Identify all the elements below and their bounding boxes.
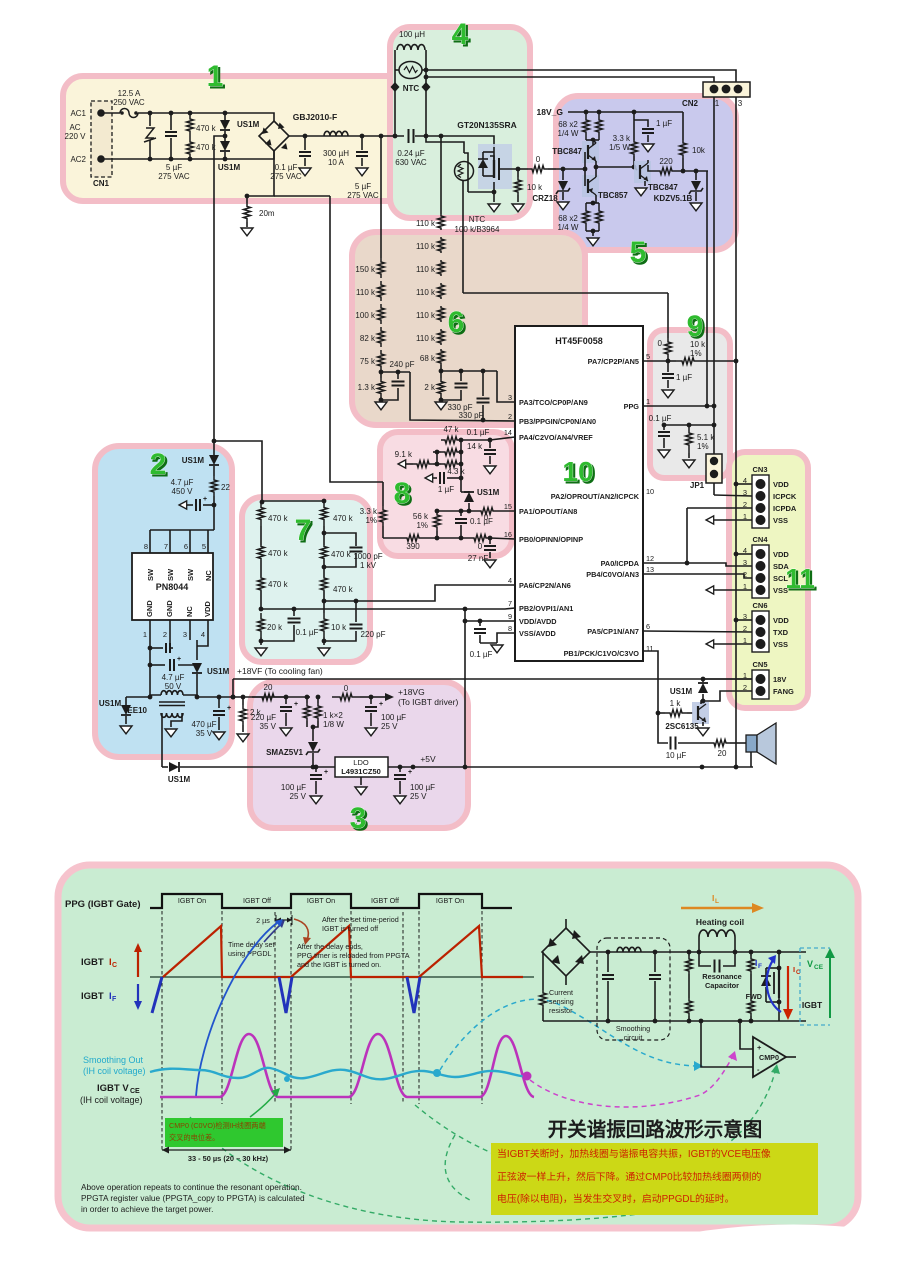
svg-text:TBC847: TBC847 [552,147,582,156]
zener CRZ18 [562,169,564,180]
svg-text:CN1: CN1 [93,179,110,188]
svg-text:VDD: VDD [773,480,789,489]
svg-text:V: V [807,959,813,969]
PN8044 top pin 5 NC [207,530,209,553]
PN8044 bottom pin 2 GND [169,620,171,640]
wire PA0 to CN4 SDA [643,563,752,566]
svg-text:US1M: US1M [168,775,191,784]
svg-text:PPGTA register value (PPGTA_co: PPGTA register value (PPGTA_copy to PPGT… [81,1193,305,1203]
svg-text:+: + [757,1043,762,1052]
capacitor 100uF 25V a [370,697,372,704]
divider resistor right top [749,950,754,955]
connector CN2 [703,82,750,97]
green dashed loop 3 [445,1135,470,1200]
svg-text:(To IGBT driver): (To IGBT driver) [398,697,458,707]
svg-text:13: 13 [646,565,654,574]
diode US1M bottom [162,766,168,768]
svg-text:9.1 k: 9.1 k [395,450,413,459]
svg-text:100 k: 100 k [355,311,376,320]
svg-text:CN5: CN5 [752,660,767,669]
jumper JP1 [706,454,722,483]
wire speaker return [750,752,752,767]
wire AC2 bottom rail [101,151,274,159]
svg-text:IGBT: IGBT [81,991,104,1002]
svg-text:+: + [203,496,207,503]
diode US1M clamp [464,492,474,502]
svg-text:PB2/OVPI1/AN1: PB2/OVPI1/AN1 [519,604,573,613]
svg-text:110 k: 110 k [416,265,436,274]
svg-text:1: 1 [646,397,650,406]
svg-text:20 k: 20 k [267,623,283,632]
svg-text:0.24 µF: 0.24 µF [397,149,424,158]
wire to region 7 divider top [214,441,262,502]
svg-text:LDO: LDO [353,758,369,767]
wire ICPDA link [687,507,752,509]
svg-text:6: 6 [646,622,650,631]
svg-text:Heating coil: Heating coil [696,917,744,927]
svg-text:330 pF: 330 pF [459,411,484,420]
svg-text:100 µF: 100 µF [410,783,435,792]
svg-text:+: + [379,701,383,708]
zener SMAZ5V1 [312,727,314,741]
svg-text:4: 4 [743,476,747,485]
svg-text:100 µF: 100 µF [281,783,306,792]
svg-text:56 k: 56 k [413,512,429,521]
capacitor 1uF driver [634,120,648,127]
region 7 mains divider block [242,497,370,662]
svg-text:+: + [294,701,298,708]
capacitor 330pF second [482,371,484,396]
IC U1 HT45F0058 [515,326,643,661]
svg-text:1: 1 [715,99,720,108]
wire PB1 to 1k [643,651,658,713]
resistor 1.3k [378,378,385,397]
capacitor 27nF [489,538,491,544]
smoothing cap 2 [654,952,656,972]
svg-text:16: 16 [504,530,512,539]
svg-text:35 V: 35 V [196,729,213,738]
svg-text:7: 7 [295,514,312,547]
svg-text:HT45F0058: HT45F0058 [555,336,603,346]
resistor 100k [378,304,385,324]
capacitor 330pF first [460,371,462,381]
svg-text:10 A: 10 A [328,158,345,167]
capacitor 4.7uF 50V [148,663,153,668]
svg-text:3: 3 [738,99,743,108]
svg-text:IGBT Off: IGBT Off [243,896,271,905]
capacitor 0.1uF divider [293,609,295,616]
svg-text:110 k: 110 k [416,288,436,297]
PN8044 top pin bus [150,529,214,531]
svg-text:(IH coil voltage): (IH coil voltage) [80,1095,143,1105]
svg-text:正弦波一样上升，然后下降。通过CMP0比较加热线圈两侧的: 正弦波一样上升，然后下降。通过CMP0比较加热线圈两侧的 [497,1170,762,1183]
svg-text:US1M: US1M [207,667,230,676]
svg-text:9: 9 [687,310,704,343]
capacitor 220pF [355,601,357,622]
svg-text:1/4 W: 1/4 W [558,129,579,138]
svg-text:0: 0 [478,542,483,551]
svg-text:PB1/PCK/C1VO/C3VO: PB1/PCK/C1VO/C3VO [564,649,640,658]
svg-text:3: 3 [350,802,367,835]
svg-text:0: 0 [658,339,663,348]
wire MCU VSS [497,633,515,643]
resistor 0 PB0 [470,535,490,542]
svg-text:0: 0 [536,155,541,164]
divider resistor left bottom [686,998,693,1016]
CN4 VSS arrow [706,586,714,594]
dashed timing gridlines [161,893,163,1104]
svg-text:FANG: FANG [773,687,794,696]
divider top rail [262,500,324,502]
capacitor 4.7uF 450V [203,504,214,506]
svg-text:ICPDA: ICPDA [773,504,797,513]
svg-text:Above operation repeats to con: Above operation repeats to continue the … [81,1182,302,1192]
blue down arrow [137,984,139,1003]
capacitor 1uF fb [447,477,461,479]
resistor 3.3k 1pct [382,482,384,506]
diode US1M aux [196,640,198,660]
svg-text:0: 0 [344,684,349,693]
PN8044 top pin 6 SW [189,530,191,553]
base bus wire [584,152,586,186]
resistor 220 [648,165,656,171]
svg-text:4.7 µF: 4.7 µF [162,673,185,682]
wire ICPCK to CN3 [714,495,752,496]
fuse F1 12.5A 250VAC [101,112,120,114]
resistor 82k [378,327,385,347]
svg-text:PPG timer is reloaded from PPG: PPG timer is reloaded from PPGTA [297,951,410,960]
resistor 470k R1 [321,501,328,526]
svg-text:After the delay ends,: After the delay ends, [297,942,363,951]
resistor 470k upper [187,113,194,137]
transistor emitter gnd [702,722,704,726]
resistor 470k lower [187,137,194,159]
current sensing resistor [542,951,543,953]
svg-text:+: + [324,769,328,776]
svg-text:1/8 W: 1/8 W [323,720,344,729]
svg-text:14 k: 14 k [467,442,483,451]
svg-text:CRZ18: CRZ18 [532,194,558,203]
svg-text:+: + [227,705,231,712]
svg-text:150 k: 150 k [355,265,376,274]
svg-text:1 k×2: 1 k×2 [323,711,343,720]
svg-text:+: + [408,769,412,776]
svg-text:3.3 k: 3.3 k [360,507,378,516]
svg-text:in order to achieve the target: in order to achieve the target power. [81,1204,213,1214]
period annotation 33-50us [162,1149,291,1151]
capacitor 0.1uF PPG [663,425,665,430]
svg-text:100 k/B3964: 100 k/B3964 [455,225,500,234]
wire 18V rail [197,696,310,698]
svg-text:CN6: CN6 [752,601,767,610]
wire collector to FANG [701,691,752,704]
diamond terminal right [422,82,431,92]
svg-text:14: 14 [504,428,512,437]
wire coil to CN2 pin 1 [426,77,714,83]
bridge rectifier small [542,928,590,976]
svg-text:CN2: CN2 [682,99,699,108]
svg-text:AC: AC [69,123,80,132]
wire driver mid node [596,166,634,168]
wire PB4 to CN4 SCL [643,574,752,578]
svg-text:CN3: CN3 [752,465,767,474]
region 1 AC input block [63,76,457,201]
resistor 68k [438,349,445,365]
svg-text:Capacitor: Capacitor [705,981,739,990]
svg-text:PA7/CP2P/AN5: PA7/CP2P/AN5 [588,357,639,366]
svg-text:US1M: US1M [182,456,205,465]
capacitor 240pF [381,371,410,373]
wire coil to CN2 pin 3 [426,70,736,83]
svg-text:4: 4 [452,18,469,51]
capacitor 100uF 25V out [399,767,401,772]
svg-text:0.1 µF: 0.1 µF [275,163,298,172]
svg-text:L: L [715,898,719,905]
svg-text:+: + [177,656,181,663]
wire divider to MCU PA3 [497,371,515,402]
PN8044 bottom pin 3 NC [189,620,191,640]
svg-text:F: F [758,963,762,970]
svg-text:10 µF: 10 µF [666,751,687,760]
svg-text:220 V: 220 V [65,132,87,141]
svg-text:AC1: AC1 [70,109,86,118]
svg-text:circuit: circuit [624,1033,643,1042]
svg-text:0.1 µF: 0.1 µF [470,650,493,659]
resistor 0 PA7 [667,358,669,361]
resistor 56k 1pct [434,511,441,531]
IC PN8044 [132,553,213,620]
capacitor bypass small [150,647,163,649]
resistor 110k d [438,283,445,299]
svg-text:10: 10 [562,456,593,487]
svg-text:TXD: TXD [773,628,789,637]
svg-text:PN8044: PN8044 [156,582,189,592]
resistor 20k [258,613,265,637]
capacitor 470uF 35V [218,697,220,708]
svg-text:PA0/ICPDA: PA0/ICPDA [601,559,640,568]
svg-text:开关谐振回路波形示意图: 开关谐振回路波形示意图 [548,1118,763,1141]
svg-text:33 - 50 µs (20 – 30 kHz): 33 - 50 µs (20 – 30 kHz) [188,1154,269,1163]
magenta dashed pointer curve [530,1056,733,1107]
svg-text:0.1 µF: 0.1 µF [296,628,319,637]
CMP0 comparator [701,1021,753,1067]
resistor 470k L3 [258,577,265,591]
resistor 10k pullup [682,112,684,140]
diode US1M lower [220,141,230,151]
node sense line [463,292,668,294]
FWD diode [765,968,767,975]
diode US1M fan [701,677,706,682]
svg-text:IGBT: IGBT [802,1000,823,1010]
right divider chain [440,136,442,214]
resistor 4.3k [441,461,461,468]
svg-text:PA5/CP1N/AN7: PA5/CP1N/AN7 [587,627,639,636]
svg-text:1/5 W: 1/5 W [609,143,630,152]
resistor 20 speaker [710,740,730,747]
svg-text:and the IGBT is turned on.: and the IGBT is turned on. [297,960,381,969]
svg-text:当IGBT关断时，加热线圈与谐振电容共振，IGBT的VCE电: 当IGBT关断时，加热线圈与谐振电容共振，IGBT的VCE电压像 [497,1147,771,1160]
svg-text:68 x2: 68 x2 [558,214,578,223]
region 6 voltage divider block [352,232,585,425]
svg-text:US1M: US1M [99,699,122,708]
wire primary gnd down [149,660,151,697]
wire NTC sense down [462,181,464,293]
cyan dashed pointer curve [440,999,697,1070]
svg-text:5.1 k: 5.1 k [697,433,715,442]
svg-text:470 k: 470 k [268,549,289,558]
svg-text:10: 10 [646,487,654,496]
resistor 68x2 lower pair [586,202,599,204]
divider resistor left top [687,950,692,955]
wire to MCU PA4 [490,437,515,440]
region 4 heating coil / IGBT block [390,27,530,218]
svg-text:Resonance: Resonance [702,972,741,981]
svg-text:GND: GND [145,600,154,617]
PN8044 top pin 7 SW [169,530,171,553]
svg-text:470 k: 470 k [196,124,217,133]
IGBT freewheel current waveform blue [152,977,162,1013]
svg-text:450 V: 450 V [172,487,194,496]
svg-text:1 µF: 1 µF [676,373,692,382]
resistor 110k b [438,237,445,253]
svg-text:TBC857: TBC857 [598,191,628,200]
svg-text:PPG: PPG [624,402,640,411]
svg-text:20m: 20m [259,209,275,218]
region 11 connectors block [729,452,808,708]
PN8044 bottom pin 4 VDD [207,620,209,640]
svg-text:VSS: VSS [773,516,788,525]
svg-text:10k: 10k [692,146,706,155]
top rail resonant [590,951,806,953]
region 3 LDO power block [250,682,468,828]
wire JP1 to PA2 [713,483,715,495]
svg-text:4: 4 [201,630,205,639]
svg-text:Smoothing: Smoothing [616,1024,650,1033]
red Ic arrow resonant [787,966,789,1012]
resistor 2k [242,697,244,705]
capacitor 1000pF 1kV [324,533,356,546]
svg-text:35 V: 35 V [260,722,277,731]
svg-text:110 k: 110 k [356,288,376,297]
svg-text:GT20N135SRA: GT20N135SRA [457,120,517,130]
svg-text:4.3 k: 4.3 k [447,467,465,476]
diamond terminal left [391,82,400,92]
waveform panel background [58,865,858,1228]
capacitor 100uF 25V in [315,766,317,768]
svg-text:交叉的电位差。: 交叉的电位差。 [169,1133,219,1142]
bottom rail resonant [543,1020,806,1022]
svg-text:275 VAC: 275 VAC [347,191,379,200]
resistor 1k [665,710,687,717]
resistor 0 18VG [332,694,360,701]
svg-text:1 kV: 1 kV [360,561,377,570]
svg-text:25 V: 25 V [410,792,427,801]
svg-text:PA1/OPOUT/AN8: PA1/OPOUT/AN8 [519,507,577,516]
svg-text:2: 2 [508,412,512,421]
smoothing waveform cyan [150,1068,530,1080]
svg-text:5: 5 [646,352,650,361]
svg-text:+18VF (To cooling fan): +18VF (To cooling fan) [237,666,323,676]
svg-text:Current: Current [549,988,573,997]
svg-text:8: 8 [144,542,148,551]
svg-text:100 µH: 100 µH [399,30,425,39]
VDD taps to connectors [734,482,739,487]
svg-text:After the set time-period: After the set time-period [322,915,399,924]
resistor 9.1k [413,461,433,468]
wire LDO output 5V [388,766,753,768]
blue IF arrow resonant [767,960,781,1012]
svg-text:PA2/OPROUT/AN2/ICPCK: PA2/OPROUT/AN2/ICPCK [551,492,640,501]
svg-text:US1M: US1M [670,687,693,696]
svg-text:275 VAC: 275 VAC [158,172,190,181]
resistor 0 gate [528,166,548,173]
svg-text:1.3 k: 1.3 k [358,383,376,392]
resistor 110k e [438,306,445,322]
svg-text:TBC847: TBC847 [648,183,678,192]
capacitor 0.1uF PA4 [489,440,491,448]
svg-text:VSS: VSS [773,640,788,649]
svg-text:VDD: VDD [773,616,789,625]
svg-text:CMP0: CMP0 [759,1053,779,1062]
capacitor 1uF PA7 [667,361,669,372]
svg-text:NTC: NTC [469,215,486,224]
wire CN5 18V [705,678,752,680]
svg-text:3: 3 [183,630,187,639]
wire AC1 top rail [138,113,274,121]
yellow highlight note [491,1143,818,1215]
svg-text:10 k: 10 k [527,183,543,192]
svg-text:PPG (IGBT Gate): PPG (IGBT Gate) [65,899,140,910]
resistor 75k [378,350,385,370]
svg-text:12.5 A: 12.5 A [118,89,141,98]
svg-text:0.1 µF: 0.1 µF [467,428,490,437]
resistor 47k [441,437,461,444]
svg-text:1000 pF: 1000 pF [353,552,382,561]
smoothing cap 1 [607,952,609,972]
svg-text:NC: NC [185,606,194,617]
IGBT right branch [777,950,782,955]
svg-text:SMAZ5V1: SMAZ5V1 [266,748,303,757]
svg-text:AC2: AC2 [70,155,86,164]
resistor 10k 1pct [676,358,700,365]
svg-text:50 V: 50 V [165,682,182,691]
svg-text:7: 7 [164,542,168,551]
PN8044 bottom pin 1 GND [149,620,151,640]
svg-text:10 k: 10 k [690,340,706,349]
svg-text:8: 8 [508,624,512,633]
capacitor 5uF 275VAC output [361,136,363,150]
svg-text:CN4: CN4 [752,535,768,544]
resistor 20m shunt [246,196,248,203]
svg-text:300 µH: 300 µH [323,149,349,158]
svg-text:5: 5 [202,542,206,551]
svg-text:NTC: NTC [403,84,420,93]
svg-text:2: 2 [163,630,167,639]
node PA1 [437,510,477,512]
white smudge bottom right [681,1225,895,1268]
svg-text:1/4 W: 1/4 W [558,223,579,232]
svg-text:sensing: sensing [549,997,574,1006]
svg-text:GBJ2010-F: GBJ2010-F [293,112,337,122]
resistor 470k L1 [258,501,265,526]
varistor RV1 [149,113,151,126]
resistor 150k [378,258,385,278]
resistor 0 PA1 [477,508,497,515]
node line left divider to PB2 [261,608,515,609]
resistor 470k R3 [321,577,328,591]
svg-text:US1M: US1M [237,120,260,129]
svg-text:CE: CE [130,1088,140,1095]
